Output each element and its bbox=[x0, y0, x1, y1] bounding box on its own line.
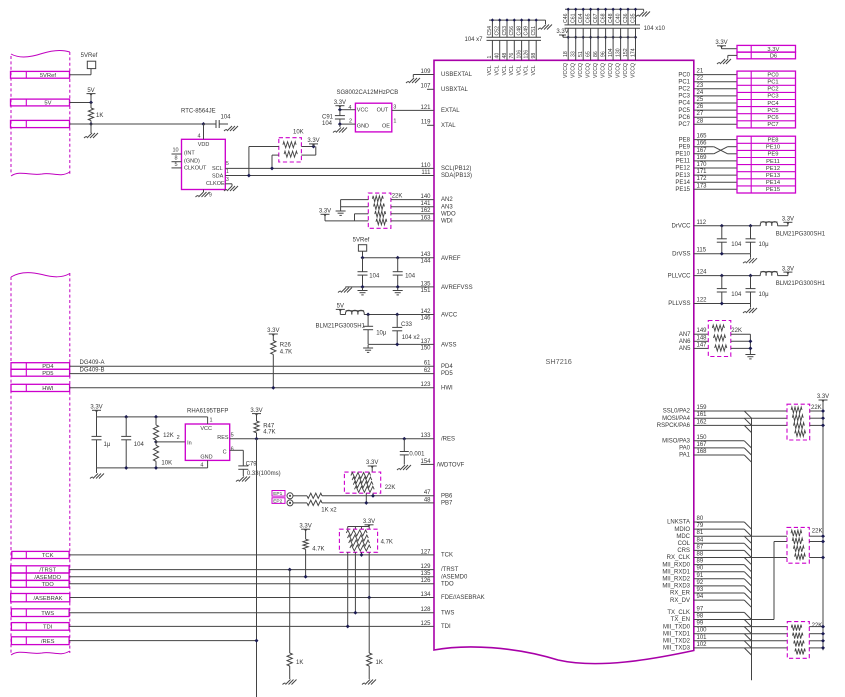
svg-text:CRS: CRS bbox=[677, 548, 690, 554]
svg-text:C35: C35 bbox=[630, 13, 636, 23]
svg-text:10K: 10K bbox=[161, 461, 172, 467]
bus entry MII_RXD2 bbox=[744, 579, 751, 586]
svg-text:104: 104 bbox=[731, 292, 742, 298]
CN2 row TCK bbox=[12, 551, 69, 559]
U1 pin93 RX_ER bbox=[670, 587, 704, 597]
CN2 torn bottom bbox=[11, 651, 70, 655]
svg-text:1: 1 bbox=[487, 56, 493, 59]
U2 pin4 VDD wire bbox=[198, 122, 206, 139]
svg-text:PE9: PE9 bbox=[679, 144, 691, 150]
wire MII_RXD0 bbox=[694, 564, 745, 566]
svg-text:3: 3 bbox=[226, 177, 229, 183]
bus entry RSPCK bbox=[744, 425, 751, 432]
svg-text:104 x10: 104 x10 bbox=[644, 26, 666, 32]
svg-text:PC2: PC2 bbox=[678, 87, 690, 93]
ground for cap array x10 bbox=[636, 12, 650, 17]
wire USBXTAL stub bbox=[427, 88, 434, 90]
svg-text:VCL: VCL bbox=[516, 65, 522, 75]
U1 pin126 TDO bbox=[420, 578, 454, 587]
wire bead to AVCC pin142 bbox=[364, 313, 434, 317]
svg-text:VCC: VCC bbox=[200, 426, 212, 432]
svg-text:119: 119 bbox=[421, 120, 431, 126]
resistor 1K (TRST pull-down) bbox=[287, 653, 303, 666]
svg-text:3.3V: 3.3V bbox=[782, 266, 794, 272]
bus entry MDC bbox=[744, 536, 751, 543]
svg-text:PB6: PB6 bbox=[441, 493, 453, 499]
wire MISO/PA3 bbox=[694, 440, 745, 442]
svg-text:GND: GND bbox=[200, 455, 212, 461]
wire RN outputs to 3.3V bbox=[301, 144, 315, 155]
U1 pin62 PD5 bbox=[424, 368, 454, 377]
svg-text:4.7K: 4.7K bbox=[312, 546, 324, 552]
svg-text:BLM21PG300SH1: BLM21PG300SH1 bbox=[776, 281, 826, 287]
U1 pin140 AN2 bbox=[420, 194, 453, 203]
U1 pin81 MDC bbox=[676, 530, 704, 540]
U1 pin107 USBXTAL bbox=[420, 84, 468, 93]
svg-text:FDE//ASEBRAK: FDE//ASEBRAK bbox=[441, 595, 485, 601]
svg-text:USBXTAL: USBXTAL bbox=[441, 87, 469, 93]
svg-text:115: 115 bbox=[697, 248, 707, 254]
power 3.3V for WDO/WDI pulls bbox=[319, 209, 331, 217]
ground reset rail bbox=[90, 468, 104, 479]
power 3.3V (PLLVCC) bbox=[778, 266, 795, 275]
svg-text:C68: C68 bbox=[600, 13, 606, 23]
resistor 4.7K (ASEMDO pull) bbox=[303, 529, 325, 552]
capacitor C91 104 bbox=[322, 110, 345, 127]
svg-text:PC6: PC6 bbox=[767, 115, 778, 121]
connector fragment CN2 torn top bbox=[11, 273, 70, 277]
svg-text:C53: C53 bbox=[502, 26, 508, 36]
svg-text:1K: 1K bbox=[296, 660, 303, 666]
svg-text:167: 167 bbox=[697, 148, 708, 154]
svg-text:4: 4 bbox=[200, 463, 203, 469]
svg-text:22K: 22K bbox=[385, 485, 396, 491]
power 3.3V for R26 bbox=[267, 328, 279, 336]
svg-text:PE11: PE11 bbox=[766, 159, 780, 165]
U1 pins142/146 AVCC bbox=[420, 309, 457, 322]
wire 3.3V to PB network bbox=[371, 466, 373, 472]
svg-text:79: 79 bbox=[697, 523, 704, 529]
connector row D5 bbox=[737, 52, 796, 60]
svg-text:5V: 5V bbox=[87, 88, 94, 94]
svg-text:PE12: PE12 bbox=[766, 166, 780, 172]
svg-text:84: 84 bbox=[697, 537, 704, 543]
svg-text:EP2: EP2 bbox=[273, 499, 282, 505]
resistor R26 4.7K bbox=[271, 334, 292, 356]
CN2 row TWS bbox=[11, 609, 69, 617]
svg-text:112: 112 bbox=[697, 220, 707, 226]
svg-text:5VRef: 5VRef bbox=[81, 53, 98, 59]
right pull-up bus 3.3V bbox=[822, 400, 824, 650]
svg-text:1K: 1K bbox=[376, 660, 383, 666]
svg-text:147: 147 bbox=[697, 342, 708, 348]
svg-text:166: 166 bbox=[697, 141, 708, 147]
CN2 row TDI bbox=[11, 623, 69, 631]
svg-text:C65: C65 bbox=[585, 13, 591, 23]
U1 pin141 AN3 bbox=[420, 201, 453, 210]
svg-text:VCCQ: VCCQ bbox=[608, 63, 614, 78]
svg-text:5: 5 bbox=[226, 161, 229, 167]
svg-text:C48: C48 bbox=[608, 13, 614, 23]
svg-text:174: 174 bbox=[630, 48, 636, 57]
wire /TRST junction down to R 1K bbox=[288, 568, 292, 653]
svg-text:VCL: VCL bbox=[524, 65, 530, 75]
svg-text:MDC: MDC bbox=[676, 534, 690, 540]
svg-text:1μ: 1μ bbox=[104, 442, 111, 448]
bus entry COL bbox=[744, 543, 751, 550]
svg-text:3.3V: 3.3V bbox=[334, 100, 346, 106]
bus entry LNKSTA bbox=[744, 522, 751, 529]
bus entry MII_TXD3 bbox=[744, 648, 751, 655]
svg-text:PE10: PE10 bbox=[675, 152, 690, 158]
wire SCL RTC to U1 pin110 bbox=[225, 167, 433, 169]
svg-text:104: 104 bbox=[608, 48, 614, 57]
wire 3.3V to X1 VCC bbox=[338, 106, 342, 112]
svg-text:170: 170 bbox=[697, 162, 708, 168]
svg-text:In: In bbox=[187, 440, 192, 446]
wire TDO bbox=[69, 583, 434, 585]
svg-text:SCL: SCL bbox=[212, 166, 223, 172]
svg-text:10μ: 10μ bbox=[759, 242, 770, 248]
svg-text:5: 5 bbox=[231, 432, 234, 438]
U2 pin8 stub bbox=[172, 156, 182, 162]
svg-text:PE12: PE12 bbox=[675, 166, 690, 172]
svg-text:128: 128 bbox=[420, 607, 431, 613]
bus entry RX_ER bbox=[744, 593, 751, 600]
svg-text:AVREF: AVREF bbox=[441, 256, 461, 262]
CN1 row 3 (blank) bbox=[11, 120, 70, 127]
U1 pins137/150 AVSS bbox=[420, 339, 456, 352]
capacitor array 104 x7 (VCL bypass) bbox=[487, 18, 546, 60]
svg-text:(GND): (GND) bbox=[184, 158, 200, 164]
svg-text:PC7: PC7 bbox=[678, 122, 690, 128]
svg-text:C: C bbox=[223, 449, 227, 455]
U1 pin99 MII_TXD0 bbox=[663, 621, 704, 631]
svg-text:9: 9 bbox=[209, 193, 212, 199]
svg-text:C52: C52 bbox=[495, 26, 501, 36]
svg-text:HWI: HWI bbox=[42, 386, 54, 392]
svg-text:/ASEMD0: /ASEMD0 bbox=[441, 574, 468, 580]
svg-text:107: 107 bbox=[420, 84, 431, 90]
svg-text:PE10: PE10 bbox=[766, 145, 780, 151]
svg-text:PE8: PE8 bbox=[768, 138, 779, 144]
wire 5VRef row to node bbox=[70, 69, 92, 75]
svg-text:PC2: PC2 bbox=[767, 87, 778, 93]
svg-text:5: 5 bbox=[175, 162, 178, 168]
svg-text:PE8: PE8 bbox=[679, 137, 691, 143]
svg-text:81: 81 bbox=[697, 530, 704, 536]
svg-text:106: 106 bbox=[516, 50, 522, 59]
capacitor array 104 x10 (VCC bypass) bbox=[563, 8, 644, 61]
wire TXD network to bus bbox=[809, 625, 825, 650]
svg-text:PE14: PE14 bbox=[675, 180, 690, 186]
svg-text:122: 122 bbox=[697, 298, 708, 304]
svg-text:22K: 22K bbox=[731, 328, 742, 334]
svg-text:MOSI/PA4: MOSI/PA4 bbox=[662, 416, 691, 422]
U1 pin84 COL bbox=[678, 537, 704, 547]
wire reset bottom rail bbox=[97, 461, 208, 470]
svg-text:PC4: PC4 bbox=[767, 101, 779, 107]
U1 pin80 LNKSTA bbox=[667, 516, 704, 526]
U1 pin47 PB6 bbox=[424, 490, 453, 499]
svg-text:C36: C36 bbox=[623, 13, 629, 23]
svg-text:COL: COL bbox=[678, 541, 691, 547]
wire COL bbox=[694, 542, 745, 544]
svg-text:162: 162 bbox=[697, 419, 708, 425]
wire network to PB6 bbox=[371, 493, 375, 498]
svg-text:0.001: 0.001 bbox=[409, 452, 425, 458]
wire R 1K to row3 wire bbox=[90, 121, 92, 125]
svg-text:96: 96 bbox=[600, 51, 606, 57]
capacitor 0.001 on /RES bbox=[400, 437, 425, 465]
svg-text:TWS: TWS bbox=[441, 610, 454, 616]
svg-text:127: 127 bbox=[420, 549, 431, 555]
svg-text:RTC-8564JE: RTC-8564JE bbox=[181, 108, 216, 114]
wire AN2 to network bbox=[391, 199, 434, 201]
svg-text:XTAL: XTAL bbox=[441, 123, 456, 129]
svg-text:125: 125 bbox=[420, 621, 431, 627]
svg-text:VCL: VCL bbox=[531, 65, 537, 75]
U1 pin162 WDO bbox=[420, 208, 456, 217]
U1 pin161 WOSI/PA4 bbox=[662, 412, 707, 422]
svg-text:26: 26 bbox=[697, 104, 704, 110]
svg-text:SG8002CA12MHzPCB: SG8002CA12MHzPCB bbox=[337, 90, 399, 96]
U3 pin4 GND wire bbox=[200, 460, 207, 468]
capacitor 104 (AVREF a) bbox=[358, 258, 380, 287]
svg-text:3.3V: 3.3V bbox=[299, 523, 311, 529]
U1 pin123 HWI bbox=[420, 382, 453, 391]
ground (PLLVSS) bbox=[743, 304, 757, 314]
svg-text:168: 168 bbox=[697, 449, 708, 455]
svg-text:86: 86 bbox=[593, 51, 599, 57]
wire RX_DV bbox=[694, 599, 745, 601]
svg-text:AN7: AN7 bbox=[679, 332, 691, 338]
CN2 row /ASEMDO bbox=[11, 573, 69, 581]
U2 pin10 stub bbox=[172, 147, 182, 154]
U1 pin128 TWS bbox=[420, 607, 454, 616]
U2 bottom GND pin9 bbox=[196, 190, 213, 199]
wire WDO to network bbox=[391, 213, 434, 215]
bus entry MII_RXD1 bbox=[744, 572, 751, 579]
svg-text:C67: C67 bbox=[593, 13, 599, 23]
ground below 1K (ASEBRAK) bbox=[362, 666, 376, 685]
svg-text:146: 146 bbox=[420, 315, 431, 321]
U2 right pin numbers bbox=[226, 161, 229, 183]
svg-text:VCCQ: VCCQ bbox=[615, 63, 621, 78]
X1 pin3 OUT wire to EXTAL bbox=[392, 104, 434, 110]
svg-text:40: 40 bbox=[495, 53, 501, 59]
wire divider to U3 In pin2 bbox=[156, 435, 185, 442]
CN2 row PD4 bbox=[11, 363, 70, 370]
capacitor C33 104x2 (AVCC) bbox=[392, 315, 420, 345]
wire 5V node to R 1K bbox=[90, 103, 92, 109]
test point EP2 pad bbox=[287, 500, 293, 506]
power 3.3V (top right) bbox=[715, 40, 727, 48]
svg-text:MDIO: MDIO bbox=[674, 527, 690, 533]
U2 CLKOE stub to ground bbox=[224, 184, 238, 191]
svg-text:MII_TXD3: MII_TXD3 bbox=[663, 646, 691, 652]
U1 pins 21-28 PC0-PC7 wires bbox=[694, 69, 737, 125]
svg-text:VCL: VCL bbox=[495, 65, 501, 75]
svg-text:/WDTOVF: /WDTOVF bbox=[437, 462, 465, 468]
capacitor C79 0.33(100ms) bbox=[238, 450, 280, 477]
svg-text:3.3V: 3.3V bbox=[267, 328, 279, 334]
svg-text:2: 2 bbox=[177, 435, 180, 441]
svg-text:PD4: PD4 bbox=[441, 364, 453, 370]
CN2 dashed edges bbox=[11, 273, 70, 653]
svg-text:AN6: AN6 bbox=[679, 339, 691, 345]
capacitor 10u (DrVCC) bbox=[746, 226, 770, 254]
svg-text:6: 6 bbox=[231, 447, 234, 453]
svg-text:104 x7: 104 x7 bbox=[465, 37, 484, 43]
bus entry MOSI bbox=[744, 418, 751, 425]
svg-text:97: 97 bbox=[697, 606, 704, 612]
wire RX_ER bbox=[694, 592, 745, 594]
wire RN pin to SCL bbox=[270, 155, 279, 170]
U1 pin97 TX_CLK bbox=[667, 606, 704, 616]
wire /RES row bbox=[69, 639, 258, 643]
wire 5V to row 5V bbox=[70, 94, 92, 103]
resistor network 22K (AN7..AN5) bbox=[708, 321, 731, 357]
svg-text:PE13: PE13 bbox=[766, 173, 780, 179]
IC U3 RHA6195TBFP body bbox=[185, 424, 229, 460]
svg-text:18: 18 bbox=[563, 51, 569, 57]
svg-text:104: 104 bbox=[405, 273, 416, 279]
resistor R47 4.7K bbox=[254, 414, 276, 436]
CN2 row HWI bbox=[11, 384, 70, 392]
svg-text:130: 130 bbox=[615, 48, 621, 57]
wire AVREFVSS bus bbox=[345, 285, 433, 289]
wire MDIO bbox=[694, 528, 745, 530]
svg-text:TDI: TDI bbox=[43, 625, 53, 631]
svg-text:TDO: TDO bbox=[441, 581, 454, 587]
power 5V bbox=[87, 88, 96, 96]
svg-text:/ASEBRAK: /ASEBRAK bbox=[34, 596, 63, 602]
svg-text:PC7: PC7 bbox=[767, 122, 778, 128]
svg-text:PC6: PC6 bbox=[678, 115, 690, 121]
svg-text:VCCQ: VCCQ bbox=[593, 63, 599, 78]
test point EP1 label bbox=[272, 491, 285, 498]
svg-text:76: 76 bbox=[509, 53, 515, 59]
U1 pin122 PLLVSS bbox=[668, 298, 750, 308]
U1 pin163 WDI bbox=[420, 215, 453, 224]
svg-text:23: 23 bbox=[697, 83, 704, 89]
wire R26 to HWI bbox=[271, 354, 275, 389]
svg-text:91: 91 bbox=[697, 573, 704, 579]
svg-text:2: 2 bbox=[349, 118, 352, 124]
bus entry CRS bbox=[744, 550, 751, 557]
resistor network 22K (AN2..WDI) bbox=[368, 193, 391, 228]
U1 pin109 USBEXTAL bbox=[420, 69, 472, 78]
ground for cap array x7 bbox=[538, 25, 552, 30]
svg-text:RES: RES bbox=[217, 435, 229, 441]
svg-text:CLKOE: CLKOE bbox=[206, 181, 225, 187]
svg-text:VCCQ: VCCQ bbox=[585, 63, 591, 78]
svg-text:87: 87 bbox=[697, 544, 704, 550]
svg-text:VCC: VCC bbox=[357, 108, 369, 114]
U2 pin5 stub bbox=[172, 162, 182, 168]
wire TX_EN bbox=[694, 619, 774, 621]
capacitor 104 at RTC VDD bbox=[204, 115, 232, 129]
svg-text:USBEXTAL: USBEXTAL bbox=[441, 72, 473, 78]
svg-text:TX_CLK: TX_CLK bbox=[667, 610, 690, 616]
svg-text:22: 22 bbox=[697, 76, 704, 82]
svg-text:MISO/PA3: MISO/PA3 bbox=[662, 439, 691, 445]
svg-text:110: 110 bbox=[421, 163, 431, 169]
svg-text:OUT: OUT bbox=[377, 108, 389, 114]
resistor 1K x2 (EP2) bbox=[293, 500, 434, 513]
svg-text:27: 27 bbox=[697, 111, 704, 117]
svg-text:169: 169 bbox=[697, 155, 708, 161]
bus entry MII_TXD1 bbox=[744, 634, 751, 641]
U1 pin129 /TRST bbox=[420, 564, 458, 573]
power 3.3V for 4.7K network bbox=[363, 519, 375, 527]
wire WDI to network bbox=[391, 220, 434, 222]
wire network to TWS bbox=[353, 552, 357, 614]
U1 pin61 PD4 bbox=[424, 361, 454, 370]
U1 pin115 DrVSS bbox=[672, 248, 750, 258]
U3 pin5 RES wire bbox=[230, 432, 434, 438]
svg-text:R26: R26 bbox=[280, 342, 292, 348]
svg-text:C40: C40 bbox=[615, 13, 621, 23]
capacitor 10u (AVCC) bbox=[363, 315, 387, 345]
resistor network 22K (SPI pulls) bbox=[787, 404, 810, 440]
svg-text:AVREFVSS: AVREFVSS bbox=[441, 285, 473, 291]
wire network to FDE//ASEBRAK bbox=[367, 552, 371, 599]
svg-text:92: 92 bbox=[697, 580, 704, 586]
bus entry MII_TXD2 bbox=[744, 641, 751, 648]
svg-text:25: 25 bbox=[697, 97, 704, 103]
svg-text:148: 148 bbox=[697, 335, 708, 341]
U1 PE8-PE15 labels bbox=[675, 137, 690, 193]
svg-text:DG409-B: DG409-B bbox=[80, 367, 105, 373]
wire TX_EN jog to network bbox=[774, 542, 787, 620]
svg-text:SDA: SDA bbox=[212, 173, 224, 179]
X1 pin2 wire GND bbox=[338, 118, 355, 126]
svg-text:1: 1 bbox=[393, 118, 396, 124]
svg-text:VCCQ: VCCQ bbox=[600, 63, 606, 78]
CN1 dashed edges bbox=[11, 52, 70, 174]
wire TWS bbox=[69, 612, 434, 614]
svg-text:GND: GND bbox=[357, 124, 369, 130]
CN1 row 5VRef bbox=[11, 71, 70, 79]
U1 pin89 MII_RXD0 bbox=[662, 559, 704, 569]
svg-text:TCK: TCK bbox=[441, 553, 453, 559]
svg-text:149: 149 bbox=[697, 328, 708, 334]
svg-text:C64: C64 bbox=[578, 13, 584, 23]
wire TX_CLK bbox=[694, 611, 745, 613]
svg-text:10μ: 10μ bbox=[759, 292, 770, 298]
svg-text:5V: 5V bbox=[44, 101, 51, 107]
wire RSPCK/PA6 to network bbox=[694, 424, 787, 426]
wire /RES vertical to connector /RES bbox=[256, 439, 258, 697]
wire /TRST bbox=[69, 569, 434, 571]
CN2 row PD5 bbox=[11, 369, 70, 377]
CN2 row /ASEBRAK bbox=[11, 594, 70, 602]
svg-text:173: 173 bbox=[697, 183, 708, 189]
svg-text:BLM21PG300SH1: BLM21PG300SH1 bbox=[776, 231, 826, 237]
wire PD5 bbox=[70, 373, 434, 375]
wire PE10/PE9 crossover bbox=[694, 147, 737, 154]
wire /ASEMDO bbox=[69, 576, 434, 578]
svg-text:3.3V: 3.3V bbox=[715, 40, 727, 46]
ground below 5V/1K node bbox=[84, 124, 98, 138]
svg-text:151: 151 bbox=[420, 288, 431, 294]
svg-text:C91: C91 bbox=[322, 115, 334, 121]
svg-text:EP1: EP1 bbox=[273, 491, 282, 497]
svg-text:RX_DV: RX_DV bbox=[670, 598, 690, 604]
wire /ASEBRAK bbox=[70, 597, 434, 599]
